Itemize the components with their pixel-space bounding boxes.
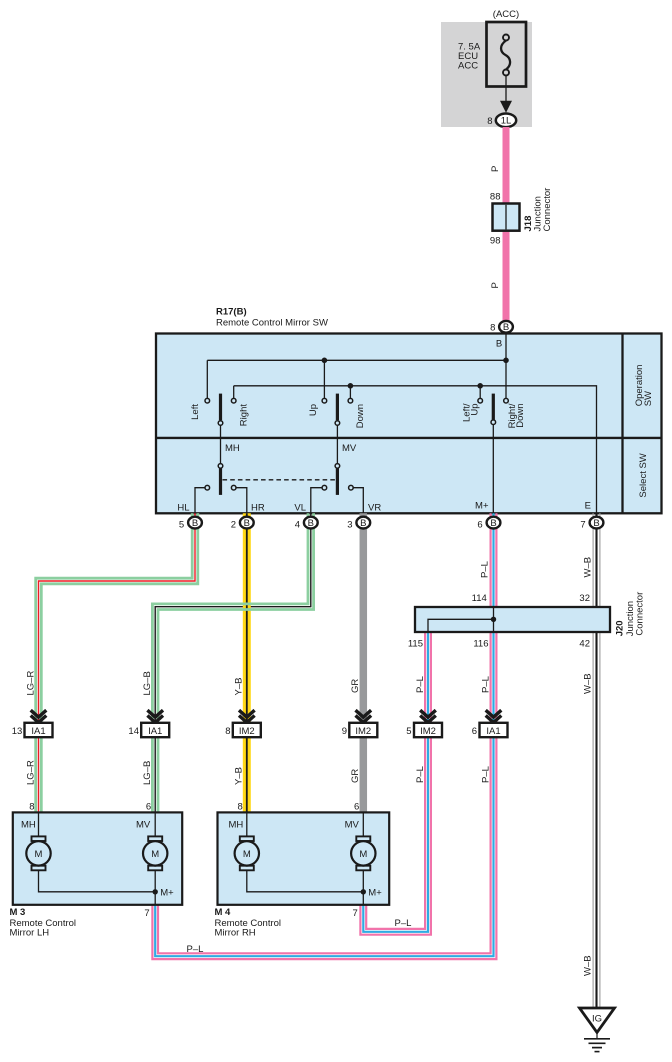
dashed link line (223, 479, 336, 481)
mirror M3 box (13, 812, 182, 904)
title M 3 (10, 907, 77, 939)
contact HR (231, 485, 236, 490)
contact VR (349, 485, 354, 490)
svg-text:8: 8 (238, 802, 243, 813)
wire P-L from pin 6 to J20 114 (491, 513, 497, 607)
pivot circle V (335, 421, 340, 426)
wire P from J18 to R17 pin 8 (503, 231, 510, 321)
wire HR elbow (236, 488, 247, 514)
connector pin 8 1L (487, 114, 516, 128)
svg-text:14: 14 (128, 726, 139, 737)
svg-text:M+: M+ (160, 888, 174, 899)
svg-text:6: 6 (472, 726, 477, 737)
label J20 Junction Connector (615, 592, 646, 637)
ground IG (580, 1008, 615, 1052)
wire W-B from pin 7 to ground (593, 513, 600, 1008)
svg-text:Left: Left (190, 404, 201, 420)
junction dot M+ M3 (153, 889, 158, 894)
wire Down stub (349, 386, 351, 399)
svg-text:P–L: P–L (415, 676, 426, 693)
select pivot H (218, 464, 223, 469)
svg-text:HR: HR (251, 503, 265, 514)
pivot circle H (218, 421, 223, 426)
svg-text:LG–R: LG–R (25, 760, 36, 785)
junction connector J20 (415, 607, 610, 632)
svg-text:P: P (490, 282, 501, 288)
pin 3 B (347, 517, 370, 531)
fuse 7.5A ECU ACC (458, 22, 526, 87)
svg-text:MV: MV (136, 820, 151, 831)
svg-text:Y–B: Y–B (234, 767, 245, 785)
chevron 5 (420, 710, 436, 722)
svg-text:GR: GR (350, 769, 361, 783)
svg-text:VR: VR (368, 503, 381, 514)
svg-text:M: M (243, 849, 251, 860)
svg-text:3: 3 (347, 519, 352, 530)
motor MH M4 (235, 836, 259, 870)
svg-text:M: M (359, 849, 367, 860)
svg-text:5: 5 (406, 726, 411, 737)
contact Right (231, 398, 236, 403)
svg-text:B: B (192, 518, 198, 529)
svg-text:Down: Down (355, 404, 366, 428)
wire pin8 to motor MH M3 (38, 812, 40, 836)
pin 4 B (295, 517, 318, 531)
svg-text:MH: MH (229, 820, 244, 831)
svg-text:R17(B): R17(B) (216, 307, 247, 318)
wire Right stub (233, 386, 235, 399)
svg-text:Up: Up (308, 404, 319, 416)
svg-text:P–L: P–L (395, 918, 412, 929)
svg-text:LG–R: LG–R (25, 671, 36, 696)
svg-text:IG: IG (592, 1014, 602, 1025)
pin 6 B (477, 517, 500, 531)
contact Down (348, 398, 353, 403)
switch arm H (219, 394, 222, 421)
svg-text:B: B (503, 322, 509, 333)
svg-text:8: 8 (490, 322, 495, 333)
svg-text:LG–B: LG–B (142, 761, 153, 785)
label Left/Up (461, 403, 480, 422)
svg-text:P–L: P–L (480, 766, 491, 783)
svg-text:8: 8 (225, 726, 230, 737)
svg-text:LG–B: LG–B (142, 671, 153, 695)
svg-text:6: 6 (146, 802, 151, 813)
wire pin6 to motor MV M4 (362, 812, 364, 836)
chevron 6 (486, 710, 502, 722)
junction dot Down (348, 383, 354, 389)
svg-text:B: B (593, 518, 599, 529)
label Operation SW (634, 365, 654, 407)
junction connector J18 (493, 204, 520, 231)
svg-text:Right: Right (238, 404, 249, 427)
svg-text:P–L: P–L (479, 561, 490, 578)
svg-text:MH: MH (21, 820, 36, 831)
svg-text:Connector: Connector (542, 188, 553, 232)
chevron 14 (147, 710, 163, 722)
svg-text:M 3: M 3 (10, 907, 26, 918)
connector 5 IM2 (406, 723, 442, 737)
pin 7 B (580, 517, 603, 531)
svg-text:W–B: W–B (582, 557, 593, 578)
chevron 8 (239, 710, 255, 722)
wire VL elbow (311, 488, 322, 514)
connector 8 IM2 (225, 723, 260, 737)
svg-text:M+: M+ (475, 501, 489, 512)
wire pin8 to motor MH M4 (246, 812, 248, 836)
svg-text:Select SW: Select SW (638, 453, 649, 497)
svg-text:Remote Control Mirror SW: Remote Control Mirror SW (216, 318, 328, 329)
svg-text:P–L: P–L (415, 766, 426, 783)
junction dot Left/Up (477, 383, 483, 389)
contact HL (205, 485, 210, 490)
svg-text:6: 6 (354, 802, 359, 813)
contact Right/Down (504, 398, 509, 403)
svg-text:116: 116 (473, 639, 488, 650)
svg-text:B: B (308, 518, 314, 529)
svg-text:GR: GR (350, 679, 361, 693)
svg-text:1L: 1L (501, 116, 512, 127)
switch R17(B) box (156, 334, 662, 514)
svg-text:MH: MH (225, 443, 240, 454)
pin 5 B (179, 517, 202, 531)
wire P-L from J20 115 to M4 pin 7 (360, 632, 431, 935)
svg-text:ACC: ACC (458, 61, 478, 72)
wire link V (336, 425, 338, 463)
pin 2 B (231, 517, 254, 531)
wire B vertical from pin 8 (505, 334, 507, 399)
svg-text:Y–B: Y–B (234, 678, 245, 696)
svg-text:B: B (360, 518, 366, 529)
svg-text:5: 5 (179, 519, 184, 530)
svg-text:P–L: P–L (480, 676, 491, 693)
svg-text:(ACC): (ACC) (493, 9, 519, 20)
svg-text:IA1: IA1 (31, 726, 45, 737)
svg-text:4: 4 (295, 519, 300, 530)
svg-text:VL: VL (294, 503, 306, 514)
svg-text:7: 7 (580, 519, 585, 530)
wire bus 2 to E (234, 386, 597, 514)
svg-text:IM2: IM2 (355, 726, 371, 737)
wire M+ bus M3 (39, 871, 156, 905)
R17(B) pin 8 B (490, 321, 513, 333)
wire link H (220, 425, 222, 463)
motor MH M3 (26, 836, 50, 870)
wire Y-B from pin 2 to M4 pin 8 (243, 513, 251, 812)
contact VL (322, 485, 327, 490)
svg-text:M 4: M 4 (215, 907, 232, 918)
svg-text:8: 8 (29, 802, 34, 813)
svg-text:114: 114 (472, 593, 487, 604)
svg-text:115: 115 (408, 639, 423, 650)
wire Left/Up stub (479, 386, 481, 399)
svg-text:Mirror LH: Mirror LH (10, 928, 50, 939)
svg-text:MV: MV (345, 820, 360, 831)
svg-text:HL: HL (177, 503, 189, 514)
svg-text:M: M (151, 849, 159, 860)
wire P from 1L to J18 (503, 127, 510, 204)
connector 9 IM2 (342, 723, 377, 737)
junction dot B (503, 358, 509, 364)
svg-text:2: 2 (231, 519, 236, 530)
svg-text:M+: M+ (368, 888, 382, 899)
svg-text:IM2: IM2 (420, 726, 436, 737)
wire LG-R from pin 5 to M3 pin 8 (36, 513, 198, 812)
title M 4 (215, 907, 282, 939)
chevron 9 (356, 710, 372, 722)
switch arm M (492, 394, 495, 420)
svg-text:9: 9 (342, 726, 347, 737)
label Right/Down (507, 403, 526, 428)
junction dot Up (322, 358, 328, 364)
motor MV M3 (143, 836, 167, 870)
wire M+ bus M4 (247, 871, 363, 905)
wire bus 1 (207, 359, 506, 361)
svg-text:J20: J20 (615, 620, 626, 636)
label J18 Junction Connector (523, 188, 553, 232)
svg-text:IA1: IA1 (486, 726, 500, 737)
arrow into connector 1L (505, 76, 507, 111)
connector 6 IA1 (472, 723, 508, 737)
wire pin6 to motor MV M3 (154, 812, 156, 836)
connector 13 IA1 (12, 723, 53, 737)
svg-text:42: 42 (579, 639, 590, 650)
svg-text:Down: Down (515, 404, 526, 428)
svg-text:P: P (490, 166, 501, 172)
motor MV M4 (351, 836, 375, 870)
svg-text:B: B (490, 518, 496, 529)
wire GR from pin 3 to M4 pin 6 (360, 513, 368, 812)
wire M+ down (492, 425, 494, 514)
junction dot M+ M4 (361, 889, 366, 894)
svg-text:7: 7 (144, 908, 149, 919)
svg-text:8: 8 (487, 116, 492, 127)
svg-text:6: 6 (477, 519, 482, 530)
svg-text:B: B (244, 518, 250, 529)
svg-text:W–B: W–B (582, 955, 593, 976)
svg-text:IA1: IA1 (148, 726, 162, 737)
wire HL elbow (195, 488, 205, 514)
svg-text:M: M (35, 849, 43, 860)
connector 14 IA1 (128, 723, 169, 737)
fuse block gray background (441, 22, 532, 127)
wire LG-B stripes (152, 513, 313, 812)
svg-text:P–L: P–L (187, 944, 204, 955)
contact Left (205, 398, 210, 403)
svg-text:W–B: W–B (582, 673, 593, 694)
svg-text:MV: MV (342, 443, 357, 454)
svg-text:IM2: IM2 (239, 726, 255, 737)
contact Up (322, 398, 327, 403)
svg-text:E: E (585, 501, 591, 512)
svg-text:98: 98 (490, 236, 501, 247)
svg-text:SW: SW (643, 391, 654, 406)
select arm H (219, 468, 222, 495)
wire Up stub (323, 360, 325, 398)
wire Left stub (206, 360, 208, 398)
svg-text:7: 7 (353, 908, 358, 919)
wire LG-B from pin 4 to M3 pin 6 (155, 513, 311, 812)
chevron 13 (31, 710, 47, 722)
svg-text:Mirror RH: Mirror RH (215, 928, 256, 939)
contact Left/Up (478, 398, 483, 403)
svg-text:Up: Up (469, 404, 480, 416)
select arm V (336, 468, 339, 495)
mirror M4 box (218, 812, 390, 904)
svg-text:88: 88 (490, 192, 501, 203)
select pivot V (335, 464, 340, 469)
wire P-L from J20 116 to M3 pin 7 (152, 632, 496, 959)
svg-text:32: 32 (579, 593, 590, 604)
svg-text:Connector: Connector (634, 592, 645, 636)
pivot circle M (491, 420, 496, 425)
svg-text:13: 13 (12, 726, 23, 737)
wire VR elbow (353, 488, 363, 514)
switch arm V (336, 394, 339, 421)
svg-text:B: B (496, 338, 502, 349)
